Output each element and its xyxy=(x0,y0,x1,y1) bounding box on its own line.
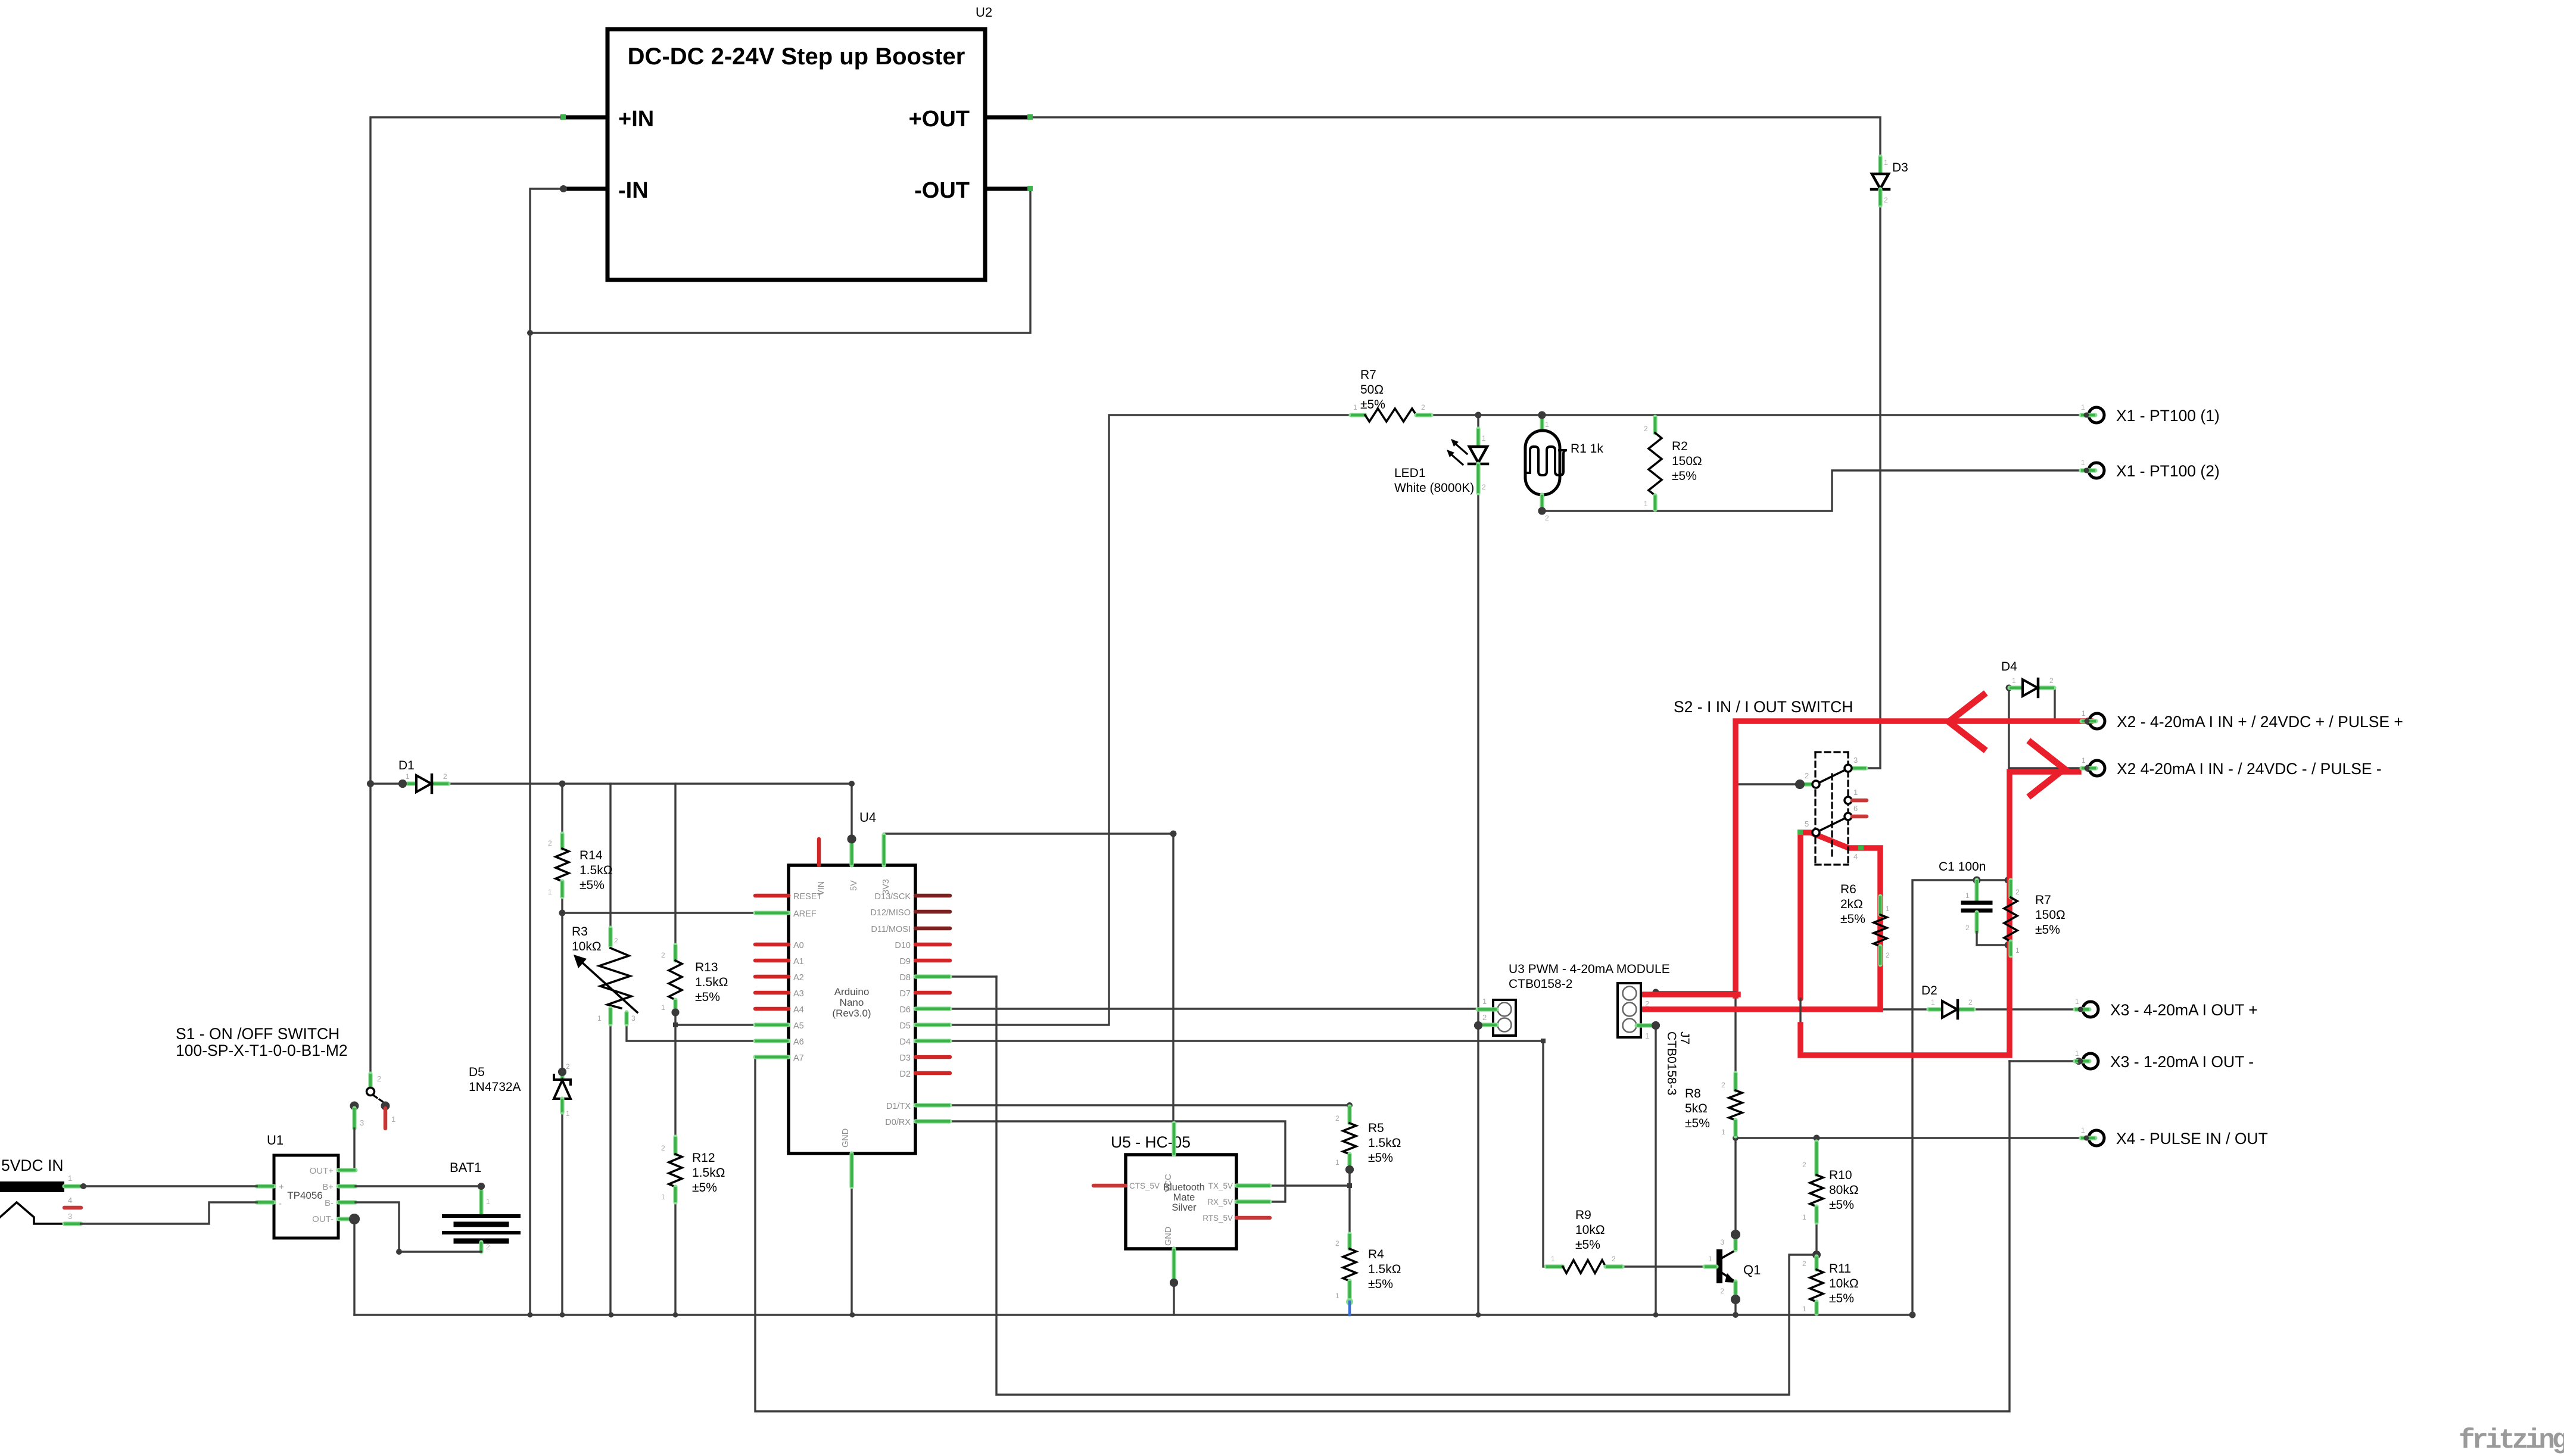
svg-text:2: 2 xyxy=(377,1074,381,1083)
svg-text:1: 1 xyxy=(1884,158,1888,167)
svg-text:2: 2 xyxy=(1335,1114,1339,1123)
wire Q1 emitter to bus xyxy=(1734,1299,1736,1315)
svg-text:GND: GND xyxy=(841,1128,850,1148)
svg-text:B+: B+ xyxy=(322,1182,334,1192)
svg-text:U1: U1 xyxy=(267,1133,283,1148)
wire U1 B+ to battery xyxy=(356,1185,481,1187)
svg-text:2: 2 xyxy=(443,772,447,781)
U1 pin B- xyxy=(338,1200,356,1204)
svg-text:R5: R5 xyxy=(1368,1121,1384,1135)
wire A7 from Arduino down and right to X3- vertical xyxy=(755,1057,2010,1411)
U1 pin - xyxy=(257,1200,274,1204)
svg-text:2: 2 xyxy=(1802,1259,1806,1268)
svg-text:2: 2 xyxy=(1421,403,1425,411)
svg-text:RX_5V: RX_5V xyxy=(1207,1198,1233,1206)
svg-text:White (8000K): White (8000K) xyxy=(1394,481,1474,495)
svg-text:1: 1 xyxy=(1853,788,1858,797)
svg-text:R11: R11 xyxy=(1829,1262,1851,1276)
svg-text:1: 1 xyxy=(548,888,552,896)
switch S1 pin2 xyxy=(368,1074,372,1087)
svg-text:X2 4-20mA I IN - / 24VDC - / P: X2 4-20mA I IN - / 24VDC - / PULSE - xyxy=(2117,760,2382,778)
svg-text:OUT-: OUT- xyxy=(312,1214,334,1224)
wire X3- line xyxy=(2010,1060,2082,1062)
Arduino 3V3 pin xyxy=(881,835,886,865)
red wire J7 pin2 to R6 and S2 pin4 xyxy=(1642,1006,1880,1012)
svg-text:OUT+: OUT+ xyxy=(310,1166,334,1176)
wire 3V3 from Arduino to HC-05 VCC xyxy=(884,834,1173,1122)
IC U4 Arduino Nano box xyxy=(789,865,915,1153)
Arduino GND pin xyxy=(849,1153,853,1187)
svg-text:U4: U4 xyxy=(859,810,876,825)
wire S2 pin2 to R8 line xyxy=(1736,783,1800,785)
svg-text:R1 1k: R1 1k xyxy=(1571,442,1603,456)
wire D3 cathode down to S2 pin3 xyxy=(1866,205,1880,768)
svg-text:3: 3 xyxy=(631,1014,635,1022)
terminal X3 4-20mA I OUT + xyxy=(2083,1002,2098,1017)
svg-text:D6: D6 xyxy=(899,1005,911,1015)
wire battery negative to U1 B- xyxy=(356,1202,481,1252)
svg-text:(Rev3.0): (Rev3.0) xyxy=(832,1008,871,1019)
svg-text:D2: D2 xyxy=(1921,984,1937,997)
svg-text:CTB0158-3: CTB0158-3 xyxy=(1665,1031,1678,1095)
power jack pin 3 xyxy=(64,1221,81,1226)
HC-05 CTS_5V pin xyxy=(1093,1184,1126,1188)
resistor R5 1.5k xyxy=(1347,1106,1351,1123)
wire S1 pin3 to U1 OUT+ xyxy=(354,1128,356,1170)
Arduino pin D9 xyxy=(915,959,950,963)
terminal X1 PT100 1 xyxy=(2089,407,2104,423)
wire J7 pin1 down to bus xyxy=(1655,1025,1656,1315)
red wire X2- loop to X3- corner xyxy=(1800,772,2079,1055)
svg-text:X1 - PT100 (2): X1 - PT100 (2) xyxy=(2116,462,2220,480)
svg-text:1: 1 xyxy=(1886,905,1890,913)
Arduino pin A0 xyxy=(755,943,789,947)
wire Arduino GND to bus xyxy=(850,1187,852,1315)
svg-text:D1: D1 xyxy=(398,759,415,772)
svg-text:R12: R12 xyxy=(692,1151,715,1165)
svg-text:2kΩ: 2kΩ xyxy=(1840,897,1863,911)
red wire J7 pin3 segment xyxy=(1642,992,1738,997)
svg-text:R2: R2 xyxy=(1672,439,1688,453)
svg-text:A1: A1 xyxy=(793,957,804,966)
svg-text:3: 3 xyxy=(1720,1238,1724,1246)
resistor R4 1.5k xyxy=(1347,1234,1351,1249)
svg-text:1: 1 xyxy=(1802,1305,1806,1313)
svg-text:±5%: ±5% xyxy=(2035,923,2060,937)
svg-text:Mate: Mate xyxy=(1173,1192,1195,1203)
svg-text:150Ω: 150Ω xyxy=(2035,908,2065,922)
switch S2 pin3 xyxy=(1851,766,1866,770)
booster U2 box xyxy=(607,29,985,280)
svg-text:X4 - PULSE IN / OUT: X4 - PULSE IN / OUT xyxy=(2116,1130,2268,1148)
wire X1 PT100 2 line xyxy=(1541,470,2081,511)
svg-text:±5%: ±5% xyxy=(695,990,720,1004)
svg-text:Arduino: Arduino xyxy=(834,986,870,997)
wire OUT- of U1 down to bus xyxy=(353,1219,355,1315)
U1 pin OUT- xyxy=(338,1217,354,1221)
svg-text:2: 2 xyxy=(1884,196,1888,204)
switch S1 pin1 xyxy=(381,1102,390,1111)
svg-text:1: 1 xyxy=(566,1109,570,1118)
svg-text:1: 1 xyxy=(597,1014,602,1022)
svg-text:1: 1 xyxy=(2075,997,2079,1006)
Arduino pin A6 xyxy=(755,1039,789,1043)
svg-text:1: 1 xyxy=(1721,1128,1725,1136)
Arduino pin A7 xyxy=(755,1055,789,1059)
svg-text:+IN: +IN xyxy=(618,107,654,132)
svg-text:2: 2 xyxy=(548,839,552,847)
svg-text:X3 - 4-20mA I OUT +: X3 - 4-20mA I OUT + xyxy=(2110,1001,2258,1019)
svg-text:1: 1 xyxy=(661,1003,665,1012)
svg-text:2: 2 xyxy=(614,937,618,945)
booster pin +OUT xyxy=(985,116,1030,120)
terminal X4 PULSE IN/OUT xyxy=(2089,1130,2104,1146)
svg-text:U2: U2 xyxy=(976,5,992,20)
U1 pin + xyxy=(257,1184,274,1188)
svg-text:Silver: Silver xyxy=(1172,1202,1197,1213)
transistor Q1 xyxy=(1716,1249,1722,1283)
svg-text:2: 2 xyxy=(566,1062,570,1071)
svg-text:±5%: ±5% xyxy=(1360,398,1385,411)
svg-text:1: 1 xyxy=(406,772,410,781)
wire R14 bottom / AREF junction down through D5 to bus xyxy=(561,897,563,1072)
svg-text:1: 1 xyxy=(1482,434,1486,442)
Arduino pin D6 xyxy=(915,1006,950,1011)
Arduino pin D5 xyxy=(915,1022,950,1027)
svg-text:1: 1 xyxy=(1644,500,1648,508)
svg-text:D11/MOSI: D11/MOSI xyxy=(871,925,911,934)
svg-text:CTS_5V: CTS_5V xyxy=(1129,1181,1160,1190)
blue wire R4 to bus xyxy=(1348,1302,1351,1315)
terminal X2 4-20mA I IN - xyxy=(2089,760,2105,776)
svg-text:2: 2 xyxy=(1482,1013,1487,1022)
svg-text:6: 6 xyxy=(1853,804,1858,813)
Arduino pin D10 xyxy=(915,943,950,947)
wire X2- black under red xyxy=(2009,767,2089,769)
svg-text:10kΩ: 10kΩ xyxy=(572,940,602,953)
svg-text:X2 - 4-20mA I IN + / 24VDC + /: X2 - 4-20mA I IN + / 24VDC + / PULSE + xyxy=(2117,713,2403,731)
wire R13 top to D1 line xyxy=(674,784,676,945)
svg-text:A6: A6 xyxy=(793,1037,804,1047)
svg-text:1: 1 xyxy=(1551,1255,1555,1263)
wire D5 from Arduino up to R7 50ohm xyxy=(950,415,1351,1025)
booster pin +IN xyxy=(562,116,607,120)
wire D0/RX from Arduino to HC-05 RX_5V xyxy=(950,1121,1285,1202)
svg-text:C1 100n: C1 100n xyxy=(1939,860,1986,874)
svg-text:±5%: ±5% xyxy=(1368,1277,1393,1291)
Arduino pin AREF xyxy=(755,911,789,915)
ground bus xyxy=(354,1314,1912,1315)
svg-text:2: 2 xyxy=(1644,425,1648,433)
svg-text:1: 1 xyxy=(1931,998,1935,1006)
svg-text:1: 1 xyxy=(2075,1049,2079,1058)
wire TX_5V from HC-05 to R5/R4 junction xyxy=(1270,1184,1350,1186)
wire J7 pin3 black under red xyxy=(1656,991,1736,993)
svg-text:D2: D2 xyxy=(899,1070,911,1079)
svg-text:2: 2 xyxy=(1805,771,1809,780)
svg-text:1: 1 xyxy=(1335,1292,1339,1300)
HC-05 TX_5V pin xyxy=(1236,1183,1270,1187)
svg-text:D0/RX: D0/RX xyxy=(885,1118,911,1127)
svg-text:R3: R3 xyxy=(572,925,588,939)
svg-text:1N4732A: 1N4732A xyxy=(469,1080,521,1094)
Arduino pin A2 xyxy=(755,975,789,979)
svg-text:1: 1 xyxy=(1965,891,1970,900)
svg-text:+OUT: +OUT xyxy=(909,107,970,132)
svg-text:Nano: Nano xyxy=(840,997,864,1008)
svg-text:±5%: ±5% xyxy=(1575,1238,1600,1252)
svg-text:D13/SCK: D13/SCK xyxy=(875,892,911,902)
wire pot R3 pin1 down to bus xyxy=(609,1024,611,1315)
svg-text:1: 1 xyxy=(1708,1255,1712,1263)
power jack pin 4 xyxy=(64,1206,81,1210)
wire -IN from booster down to ground bus xyxy=(530,189,562,1315)
svg-text:2: 2 xyxy=(1721,1081,1725,1089)
svg-text:2: 2 xyxy=(661,951,665,959)
svg-text:2: 2 xyxy=(1545,514,1549,522)
svg-text:2: 2 xyxy=(2015,888,2020,896)
svg-text:R9: R9 xyxy=(1575,1208,1591,1222)
Arduino VIN pin xyxy=(817,839,821,865)
switch S2 pin2 with lever xyxy=(1795,780,1805,789)
resistor R8 5k xyxy=(1733,1073,1737,1090)
svg-text:±5%: ±5% xyxy=(580,878,605,892)
resistor R10 80k xyxy=(1814,1142,1818,1175)
booster pin -OUT xyxy=(985,187,1030,191)
svg-text:A5: A5 xyxy=(793,1021,804,1031)
resistor R13 1.5k xyxy=(673,945,677,961)
Arduino 5V pin xyxy=(848,835,856,844)
svg-text:±5%: ±5% xyxy=(1672,469,1697,483)
svg-text:2: 2 xyxy=(1612,1255,1616,1263)
svg-text:5: 5 xyxy=(1805,819,1809,828)
svg-text:1.5kΩ: 1.5kΩ xyxy=(1368,1262,1401,1276)
svg-text:AREF: AREF xyxy=(793,909,817,919)
svg-text:D4: D4 xyxy=(899,1037,911,1047)
wire X4 line from R8 bottom to X4 terminal xyxy=(1736,1137,2085,1139)
HC-05 VCC pin xyxy=(1172,1123,1176,1155)
svg-text:A4: A4 xyxy=(793,1005,804,1015)
wire R9 to Q1 base xyxy=(1622,1265,1703,1267)
svg-text:1: 1 xyxy=(2082,709,2086,718)
switch S1 pin3 xyxy=(350,1102,359,1111)
wire X2+ black under red xyxy=(2009,720,2089,722)
svg-text:4: 4 xyxy=(68,1196,72,1205)
resistor R14 1.5k xyxy=(560,834,564,849)
svg-text:R4: R4 xyxy=(1368,1248,1384,1261)
svg-text:X3 - 1-20mA I OUT -: X3 - 1-20mA I OUT - xyxy=(2110,1053,2254,1071)
svg-text:DC-DC 2-24V Step up Booster: DC-DC 2-24V Step up Booster xyxy=(628,43,965,70)
junction dots overlay xyxy=(398,780,407,788)
svg-text:1: 1 xyxy=(2015,946,2020,955)
connector J7 CTB0158-3 xyxy=(1618,983,1641,1037)
svg-text:1.5kΩ: 1.5kΩ xyxy=(695,975,728,989)
svg-text:3: 3 xyxy=(360,1118,364,1127)
wire D4 from Arduino down to R9 xyxy=(950,1041,1546,1267)
svg-text:4: 4 xyxy=(1853,852,1858,861)
svg-text:D8: D8 xyxy=(899,973,911,983)
svg-text:1: 1 xyxy=(1335,1158,1339,1167)
svg-text:2: 2 xyxy=(486,1243,490,1251)
wire D6 from Arduino to U3 pin 1 xyxy=(950,1008,1481,1009)
svg-text:TP4056: TP4056 xyxy=(287,1190,323,1201)
Arduino pin D13/SCK xyxy=(915,894,950,898)
wire AREF from R14 line to Arduino AREF xyxy=(562,912,755,913)
resistor R12 1.5k xyxy=(673,1137,677,1154)
svg-text:-IN: -IN xyxy=(618,178,649,203)
svg-text:1: 1 xyxy=(2081,403,2085,411)
svg-text:R10: R10 xyxy=(1829,1168,1852,1182)
svg-text:2: 2 xyxy=(2049,676,2054,685)
red wire S2 pin5 down xyxy=(1797,833,1803,999)
svg-text:±5%: ±5% xyxy=(1685,1117,1710,1130)
thermistor R1 1k xyxy=(1540,417,1544,430)
svg-text:1: 1 xyxy=(661,1193,665,1201)
svg-text:1.5kΩ: 1.5kΩ xyxy=(692,1166,725,1180)
svg-text:X1 - PT100 (1): X1 - PT100 (1) xyxy=(2116,407,2220,425)
switch S2 pin6 xyxy=(1845,813,1852,820)
svg-text:D12/MISO: D12/MISO xyxy=(870,908,911,918)
svg-text:D9: D9 xyxy=(899,957,911,966)
booster pin -IN xyxy=(562,187,607,191)
resistor R11 10k xyxy=(1814,1257,1818,1270)
svg-text:D7: D7 xyxy=(899,989,911,999)
svg-text:S1 - ON /OFF SWITCH: S1 - ON /OFF SWITCH xyxy=(176,1025,339,1043)
power jack pin 1 xyxy=(64,1184,81,1188)
svg-text:1.5kΩ: 1.5kΩ xyxy=(1368,1136,1401,1150)
wire D4 anode to X2- line xyxy=(2008,688,2010,768)
svg-text:R13: R13 xyxy=(695,961,718,974)
wire +IN from booster to S1 xyxy=(370,117,562,1074)
wire -OUT of booster joining -IN line xyxy=(530,189,1030,333)
black link under red at S2 pin5 column xyxy=(1799,999,1801,1026)
wire X1 PT100 1 line xyxy=(1431,414,2081,416)
wire D1 line from S1 vertical to Arduino 5V xyxy=(370,784,852,839)
svg-text:D5: D5 xyxy=(469,1065,485,1079)
wire R13 bottom through R12 to bus xyxy=(674,1012,676,1137)
svg-text:1: 1 xyxy=(2081,459,2085,467)
svg-text:1: 1 xyxy=(1353,403,1357,411)
wire D2 output line to X3+ terminal xyxy=(1880,1008,2081,1010)
Arduino pin D12/MISO xyxy=(915,910,950,914)
wire pot R3 pin3 to Arduino A6 xyxy=(627,1024,755,1041)
svg-text:2: 2 xyxy=(1965,924,1970,932)
svg-text:GND: GND xyxy=(1164,1227,1173,1246)
svg-text:2: 2 xyxy=(1968,998,1973,1006)
svg-text:5V: 5V xyxy=(849,880,859,891)
Arduino pin D8 xyxy=(915,974,950,978)
svg-text:2: 2 xyxy=(1645,999,1649,1008)
Arduino pin D7 xyxy=(915,991,950,995)
svg-text:50Ω: 50Ω xyxy=(1360,383,1384,397)
Arduino pin A1 xyxy=(755,959,789,963)
svg-text:Q1: Q1 xyxy=(1743,1262,1761,1277)
svg-text:±5%: ±5% xyxy=(1829,1198,1854,1212)
diode D3 xyxy=(1878,157,1882,174)
svg-text:+: + xyxy=(279,1182,284,1192)
wire pot R3 pin2 up to D1 line xyxy=(609,784,611,928)
svg-text:Bluetooth: Bluetooth xyxy=(1163,1182,1205,1193)
potentiometer R3 10k xyxy=(608,928,612,946)
wire C1 bottom link xyxy=(1977,944,2008,946)
HC-05 GND pin xyxy=(1172,1249,1176,1282)
svg-text:2: 2 xyxy=(1802,1161,1806,1169)
svg-text:100-SP-X-T1-0-0-B1-M2: 100-SP-X-T1-0-0-B1-M2 xyxy=(176,1042,348,1059)
wire R14 top to D1 line xyxy=(561,784,563,834)
Arduino pin D3 xyxy=(915,1055,950,1059)
U1 pin OUT+ xyxy=(338,1168,356,1172)
switch S1 lever dashed xyxy=(374,1096,384,1102)
switch S2 dashed body xyxy=(1815,751,1848,753)
wire jack pin1 to U1 + xyxy=(81,1185,257,1187)
svg-text:5VDC IN: 5VDC IN xyxy=(1,1156,64,1174)
wire HC-05 GND to bus xyxy=(1173,1283,1174,1315)
svg-text:5kΩ: 5kΩ xyxy=(1685,1102,1708,1115)
wire R2 joins R1 lines xyxy=(1654,415,1656,433)
svg-text:U3 PWM - 4-20mA MODULE: U3 PWM - 4-20mA MODULE xyxy=(1509,962,1670,976)
svg-text:BAT1: BAT1 xyxy=(450,1160,481,1175)
red wire arrow on X2- line pointing right xyxy=(2031,743,2064,795)
Arduino pin D1/TX xyxy=(915,1103,950,1107)
terminal X2 4-20mA I IN + xyxy=(2089,713,2105,729)
resistor R6 2k (over red wire) xyxy=(1878,896,1882,915)
svg-text:A2: A2 xyxy=(793,973,804,983)
U1 pin B+ xyxy=(338,1184,356,1188)
red wire X2+ to J7 pin3 xyxy=(1736,721,2091,996)
svg-text:D1/TX: D1/TX xyxy=(886,1102,911,1111)
switch S2 pin5 with lever xyxy=(1812,829,1820,836)
terminal X1 PT100 2 xyxy=(2089,463,2104,478)
svg-text:D3: D3 xyxy=(1892,161,1908,174)
svg-text:2: 2 xyxy=(1720,1287,1724,1295)
svg-text:D3: D3 xyxy=(899,1053,911,1063)
svg-text:2: 2 xyxy=(1482,483,1486,491)
svg-text:-: - xyxy=(279,1199,282,1209)
svg-text:R7: R7 xyxy=(1360,368,1376,382)
resistor R2 150ohm xyxy=(1653,417,1657,433)
wire R5 to R4 link xyxy=(1348,1168,1350,1234)
wire +OUT of booster to D3 xyxy=(1030,117,1880,157)
svg-text:±5%: ±5% xyxy=(1829,1292,1854,1305)
wire D8 from Arduino down to R10/R11 junction xyxy=(996,977,1817,1395)
svg-text:1: 1 xyxy=(68,1174,72,1183)
Arduino pin D2 xyxy=(915,1071,950,1075)
svg-text:±5%: ±5% xyxy=(1840,912,1865,926)
svg-text:1: 1 xyxy=(2012,676,2016,685)
wire R8 line down to Q1 collector xyxy=(1734,784,1736,1073)
svg-text:3: 3 xyxy=(1853,756,1858,765)
svg-text:U5 - HC-05: U5 - HC-05 xyxy=(1111,1133,1191,1151)
Arduino pin A3 xyxy=(755,991,789,995)
svg-text:J7: J7 xyxy=(1678,1031,1691,1045)
HC-05 RTS_5V pin xyxy=(1236,1216,1270,1220)
svg-text:R8: R8 xyxy=(1685,1087,1701,1100)
svg-text:10kΩ: 10kΩ xyxy=(1829,1277,1859,1290)
svg-text:1.5kΩ: 1.5kΩ xyxy=(580,863,612,877)
svg-text:±5%: ±5% xyxy=(692,1181,717,1195)
svg-text:80kΩ: 80kΩ xyxy=(1829,1183,1859,1197)
module U5 HC-05 box xyxy=(1126,1155,1236,1249)
svg-text:R7: R7 xyxy=(2035,893,2051,907)
svg-text:1: 1 xyxy=(1545,420,1549,429)
svg-text:3: 3 xyxy=(68,1212,72,1221)
svg-text:S2 - I IN / I OUT SWITCH: S2 - I IN / I OUT SWITCH xyxy=(1674,698,1853,716)
svg-text:2: 2 xyxy=(1886,951,1890,959)
svg-text:R14: R14 xyxy=(580,849,603,862)
Arduino pin A5 xyxy=(755,1022,789,1027)
wire U3 pin2 junction on LED line xyxy=(1477,415,1479,1315)
svg-text:CTB0158-2: CTB0158-2 xyxy=(1509,977,1572,991)
